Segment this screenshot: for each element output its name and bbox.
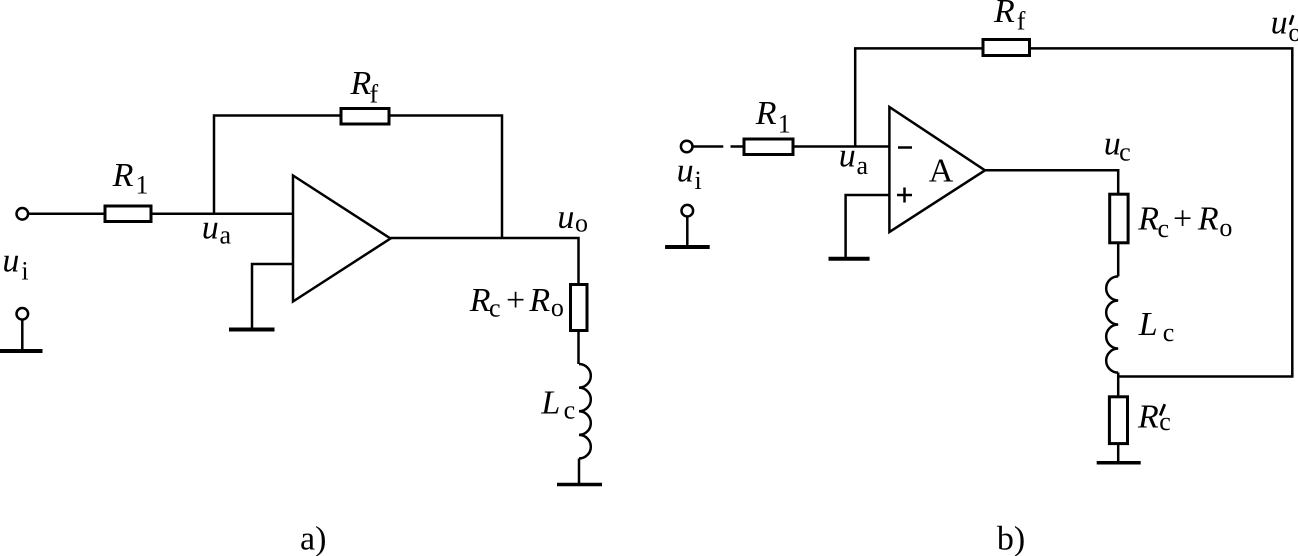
svg-text:R: R — [350, 65, 372, 102]
svg-text:R: R — [1197, 200, 1219, 237]
svg-text:u: u — [202, 210, 219, 247]
svg-text:1: 1 — [136, 171, 149, 200]
svg-text:a: a — [220, 221, 232, 250]
svg-text:o: o — [1288, 18, 1298, 47]
svg-text:L: L — [540, 385, 560, 422]
svg-text:u: u — [839, 138, 856, 175]
svg-text:c: c — [1158, 214, 1170, 243]
svg-text:R: R — [755, 95, 777, 132]
svg-text:R: R — [1137, 200, 1159, 237]
svg-text:R: R — [112, 157, 134, 194]
svg-text:o: o — [551, 293, 564, 322]
svg-text:c: c — [564, 395, 576, 424]
svg-text:c: c — [1163, 318, 1175, 347]
svg-text:o: o — [1219, 213, 1232, 242]
svg-text:R: R — [1137, 398, 1159, 435]
svg-text:R: R — [993, 0, 1015, 30]
svg-text:f: f — [370, 80, 379, 109]
svg-text:a): a) — [300, 521, 326, 556]
svg-text:o: o — [575, 209, 588, 238]
svg-text:+: + — [1173, 200, 1192, 237]
svg-text:u: u — [677, 153, 694, 190]
svg-text:c: c — [489, 294, 501, 323]
svg-text:+: + — [506, 282, 525, 319]
svg-text:c: c — [1119, 138, 1131, 167]
svg-text:1: 1 — [778, 109, 791, 138]
svg-text:A: A — [929, 153, 954, 190]
svg-text:u: u — [557, 199, 574, 236]
svg-text:c: c — [1159, 407, 1171, 436]
svg-text:R: R — [469, 282, 491, 319]
svg-text:L: L — [1138, 306, 1158, 343]
svg-text:u: u — [2, 243, 19, 280]
svg-text:i: i — [695, 166, 702, 195]
svg-text:f: f — [1017, 6, 1026, 35]
svg-text:b): b) — [997, 521, 1025, 556]
svg-text:a: a — [857, 151, 869, 180]
svg-text:u: u — [1271, 5, 1288, 42]
svg-text:R: R — [528, 282, 550, 319]
svg-text:i: i — [21, 257, 28, 286]
